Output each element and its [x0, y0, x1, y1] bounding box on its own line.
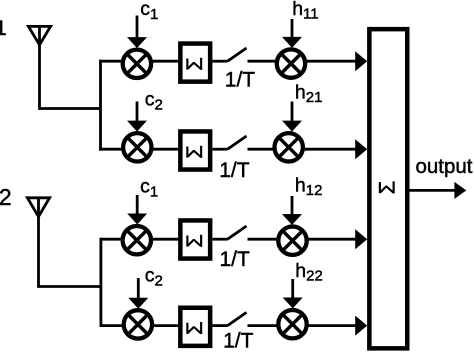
sampling switch (row 3): [212, 226, 278, 239]
svg-text:Σ: Σ: [182, 234, 207, 248]
label 1/T (row 3): [220, 248, 251, 271]
sampling switch (row 1): [212, 48, 276, 61]
antenna A1: [28, 26, 50, 44]
multiplier M6: [278, 227, 306, 255]
arrow c2 into multiplier M7: [128, 278, 148, 309]
antenna label 1: [0, 17, 7, 40]
label c2 (row 4): [145, 265, 163, 290]
multiplier M8: [278, 310, 306, 338]
summer block U1: [369, 29, 407, 348]
label 1/T (row 2): [219, 159, 250, 182]
wire branch row1: [99, 60, 123, 63]
wire M3 to integrator (row 2): [152, 148, 181, 151]
sampling switch (row 2): [212, 136, 274, 149]
svg-text:output: output: [416, 155, 473, 178]
label 1/T (row 1): [225, 68, 256, 91]
arrow c2 into multiplier M3: [127, 102, 147, 132]
svg-text:1/T: 1/T: [225, 68, 256, 91]
label h11: [292, 0, 318, 23]
svg-text:1/T: 1/T: [219, 159, 250, 182]
wire antenna A1 bus: [99, 60, 102, 151]
arrow h21 into multiplier M4: [282, 102, 302, 132]
arrow row1 into summer: [305, 51, 367, 71]
multiplier M3: [123, 133, 151, 161]
label output: [416, 155, 473, 178]
svg-text:1/T: 1/T: [220, 248, 251, 271]
arrow c1 into multiplier M1: [127, 16, 147, 49]
wire antenna A2 bus: [100, 238, 103, 327]
integrator block (row 1): [180, 44, 210, 82]
label h12: [295, 174, 323, 199]
arrow row3 into summer: [307, 229, 368, 249]
svg-text:Σ: Σ: [182, 145, 207, 159]
svg-text:Σ: Σ: [374, 181, 399, 195]
arrow h11 into multiplier M2: [282, 19, 302, 48]
wire M5 to integrator (row 3): [151, 238, 180, 241]
sampling switch (row 4): [212, 312, 278, 325]
multiplier M7: [124, 310, 152, 338]
integrator block (row 4): [180, 308, 210, 346]
svg-text:1: 1: [0, 17, 7, 40]
label 1/T (row 4): [223, 330, 254, 352]
arrow row2 into summer: [303, 139, 367, 159]
multiplier M2: [277, 49, 305, 77]
wire antenna A1 feed: [40, 43, 101, 109]
arrow output: [409, 182, 467, 199]
label c2 (row 2): [145, 89, 163, 114]
integrator block (row 2): [180, 131, 210, 169]
arrow h22 into multiplier M8: [283, 279, 303, 309]
arrow h12 into multiplier M6: [282, 196, 302, 225]
wire branch row4: [100, 324, 124, 327]
wire branch row2: [99, 148, 123, 151]
multiplier M5: [123, 226, 151, 254]
svg-text:Σ: Σ: [182, 321, 207, 335]
wire antenna A2 feed: [39, 215, 101, 287]
wire M1 to integrator (row 1): [151, 60, 180, 63]
multiplier M4: [275, 133, 303, 161]
multiplier M1: [123, 50, 151, 78]
label c1 (row 3): [140, 176, 158, 201]
arrow c1 into multiplier M5: [127, 195, 147, 225]
svg-text:1/T: 1/T: [223, 330, 254, 352]
antenna A2: [27, 198, 49, 217]
wire M7 to integrator (row 4): [152, 324, 180, 327]
arrow row4 into summer: [307, 316, 368, 336]
wire branch row3: [100, 238, 123, 241]
antenna label 2: [0, 184, 12, 210]
integrator block (row 3): [180, 220, 210, 258]
label h21: [295, 82, 323, 107]
svg-text:2: 2: [0, 184, 12, 210]
label c1 (row 1): [140, 0, 158, 23]
label h22: [295, 260, 323, 285]
svg-text:Σ: Σ: [182, 57, 207, 71]
